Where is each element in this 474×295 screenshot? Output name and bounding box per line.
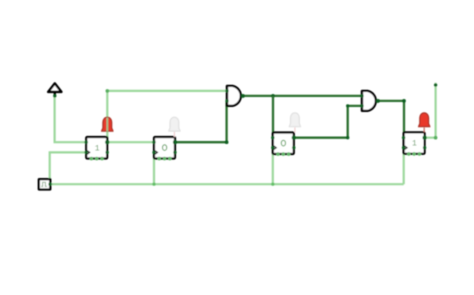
wire Q of U1 up and to AND gate A1 top input [107, 91, 227, 142]
pin nodes U4 [402, 136, 405, 139]
wire Q of U3 to AND A2 bottom input [294, 106, 362, 138]
LED D2 off [169, 117, 180, 137]
pin nodes U2 [152, 141, 155, 144]
pin nodes A1 [225, 89, 228, 92]
LED D4 red on [419, 113, 430, 133]
node corner Q3 wire b [346, 104, 349, 107]
LED D3 off [289, 113, 300, 133]
flip-flop U3 value 0 [271, 133, 296, 156]
wire AND A1 output to AND A2 top input [243, 95, 362, 97]
pin nodes U1 [85, 141, 88, 144]
clk pin mark U1 [87, 151, 89, 154]
pin nodes A2 [360, 94, 363, 97]
AND gate A2 [360, 90, 379, 111]
wire Q of U4 up stub [425, 83, 436, 138]
clk pin mark U4 [405, 146, 407, 149]
node corner Q2 wire [225, 140, 229, 144]
clk pin mark U2 [155, 151, 157, 154]
node junction A1 out tee [271, 94, 275, 98]
wire Q of U2 to AND gate A1 bottom input [175, 101, 227, 142]
power VCC symbol [48, 83, 61, 97]
value label U3 [281, 140, 285, 146]
wire riser bus to clk of U2 [153, 152, 155, 184]
clock element CLK [39, 179, 52, 189]
svg-text:1: 1 [95, 145, 100, 154]
wire power down to D of U1 [55, 96, 87, 142]
wire riser bus to clk of U3 [272, 148, 274, 185]
wire AND A2 output to D of U4 [378, 101, 404, 138]
clk pin mark U3 [274, 146, 276, 149]
wire tee down to D of U3 [272, 96, 274, 138]
node corner Q3 wire a [346, 136, 349, 139]
node junction bus x154 [152, 183, 155, 186]
node corner Q4 wire [434, 136, 438, 140]
value label U2 [163, 145, 167, 151]
svg-text:1: 1 [412, 140, 417, 149]
node junction bus x273 [271, 183, 274, 186]
flip-flop U2 value 0 [152, 137, 177, 160]
node corner Q1 wire [106, 89, 110, 93]
wire clock to clk of U1 [50, 152, 86, 184]
wire clock bus bottom [50, 183, 404, 185]
pin nodes U3 [271, 136, 274, 139]
node stub end [434, 83, 437, 86]
wire Q of U1 to D of U2 [107, 141, 154, 143]
node corner A2 out [402, 99, 406, 103]
wire riser bus to clk of U4 [403, 148, 405, 185]
AND gate A1 [225, 85, 244, 106]
flip-flop U4 value 1 [402, 132, 427, 155]
flip-flop U1 value 1 [85, 137, 110, 160]
LED D1 red on [102, 117, 113, 131]
